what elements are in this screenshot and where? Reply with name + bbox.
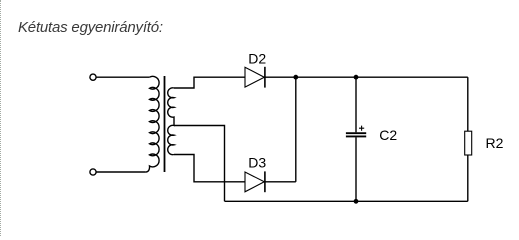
wire riser from D3 up to top rail bbox=[295, 77, 297, 182]
resistor R2 body bbox=[465, 131, 472, 155]
junction node C2 top bbox=[354, 75, 359, 80]
capacitor C2 polarity plus bbox=[359, 126, 364, 131]
wire C2 bottom lead bbox=[355, 137, 357, 201]
terminal top-left circle bbox=[90, 74, 96, 80]
wire secondary top to D2 bbox=[174, 77, 245, 88]
wire D3 cathode to riser bbox=[265, 181, 296, 183]
junction node D2/D3 cathodes bbox=[293, 75, 298, 80]
diode D2 triangle bbox=[245, 67, 264, 87]
diode D2 cathode bar bbox=[264, 67, 266, 88]
wire primary top lead bbox=[96, 76, 149, 78]
transformer T1 primary winding bbox=[146, 76, 159, 172]
transformer T1 secondary winding (center-tapped) bbox=[168, 88, 174, 155]
junction node C2 bottom bbox=[354, 199, 359, 204]
wire C2 top lead bbox=[355, 77, 357, 132]
wire right side down to R2 bbox=[467, 77, 469, 131]
capacitor C2 bottom plate bbox=[346, 135, 366, 137]
title text bbox=[18, 19, 163, 36]
wire top rail bbox=[265, 76, 468, 78]
svg-text:R2: R2 bbox=[486, 135, 504, 151]
svg-text:D2: D2 bbox=[248, 51, 266, 67]
svg-text:C2: C2 bbox=[379, 127, 397, 143]
transformer core bbox=[164, 76, 166, 172]
capacitor C2 top plate bbox=[346, 132, 366, 134]
wire secondary bottom to D3 bbox=[174, 155, 245, 182]
wire R2 bottom down bbox=[467, 155, 469, 201]
diode D3 triangle bbox=[245, 172, 264, 192]
wire center tap down to bottom rail bbox=[174, 126, 225, 202]
wire bottom rail bbox=[225, 200, 468, 202]
svg-text:D3: D3 bbox=[248, 154, 266, 170]
wire primary bottom lead bbox=[96, 171, 145, 173]
diode D3 cathode bar bbox=[264, 171, 266, 192]
terminal bottom-left circle bbox=[90, 169, 96, 175]
